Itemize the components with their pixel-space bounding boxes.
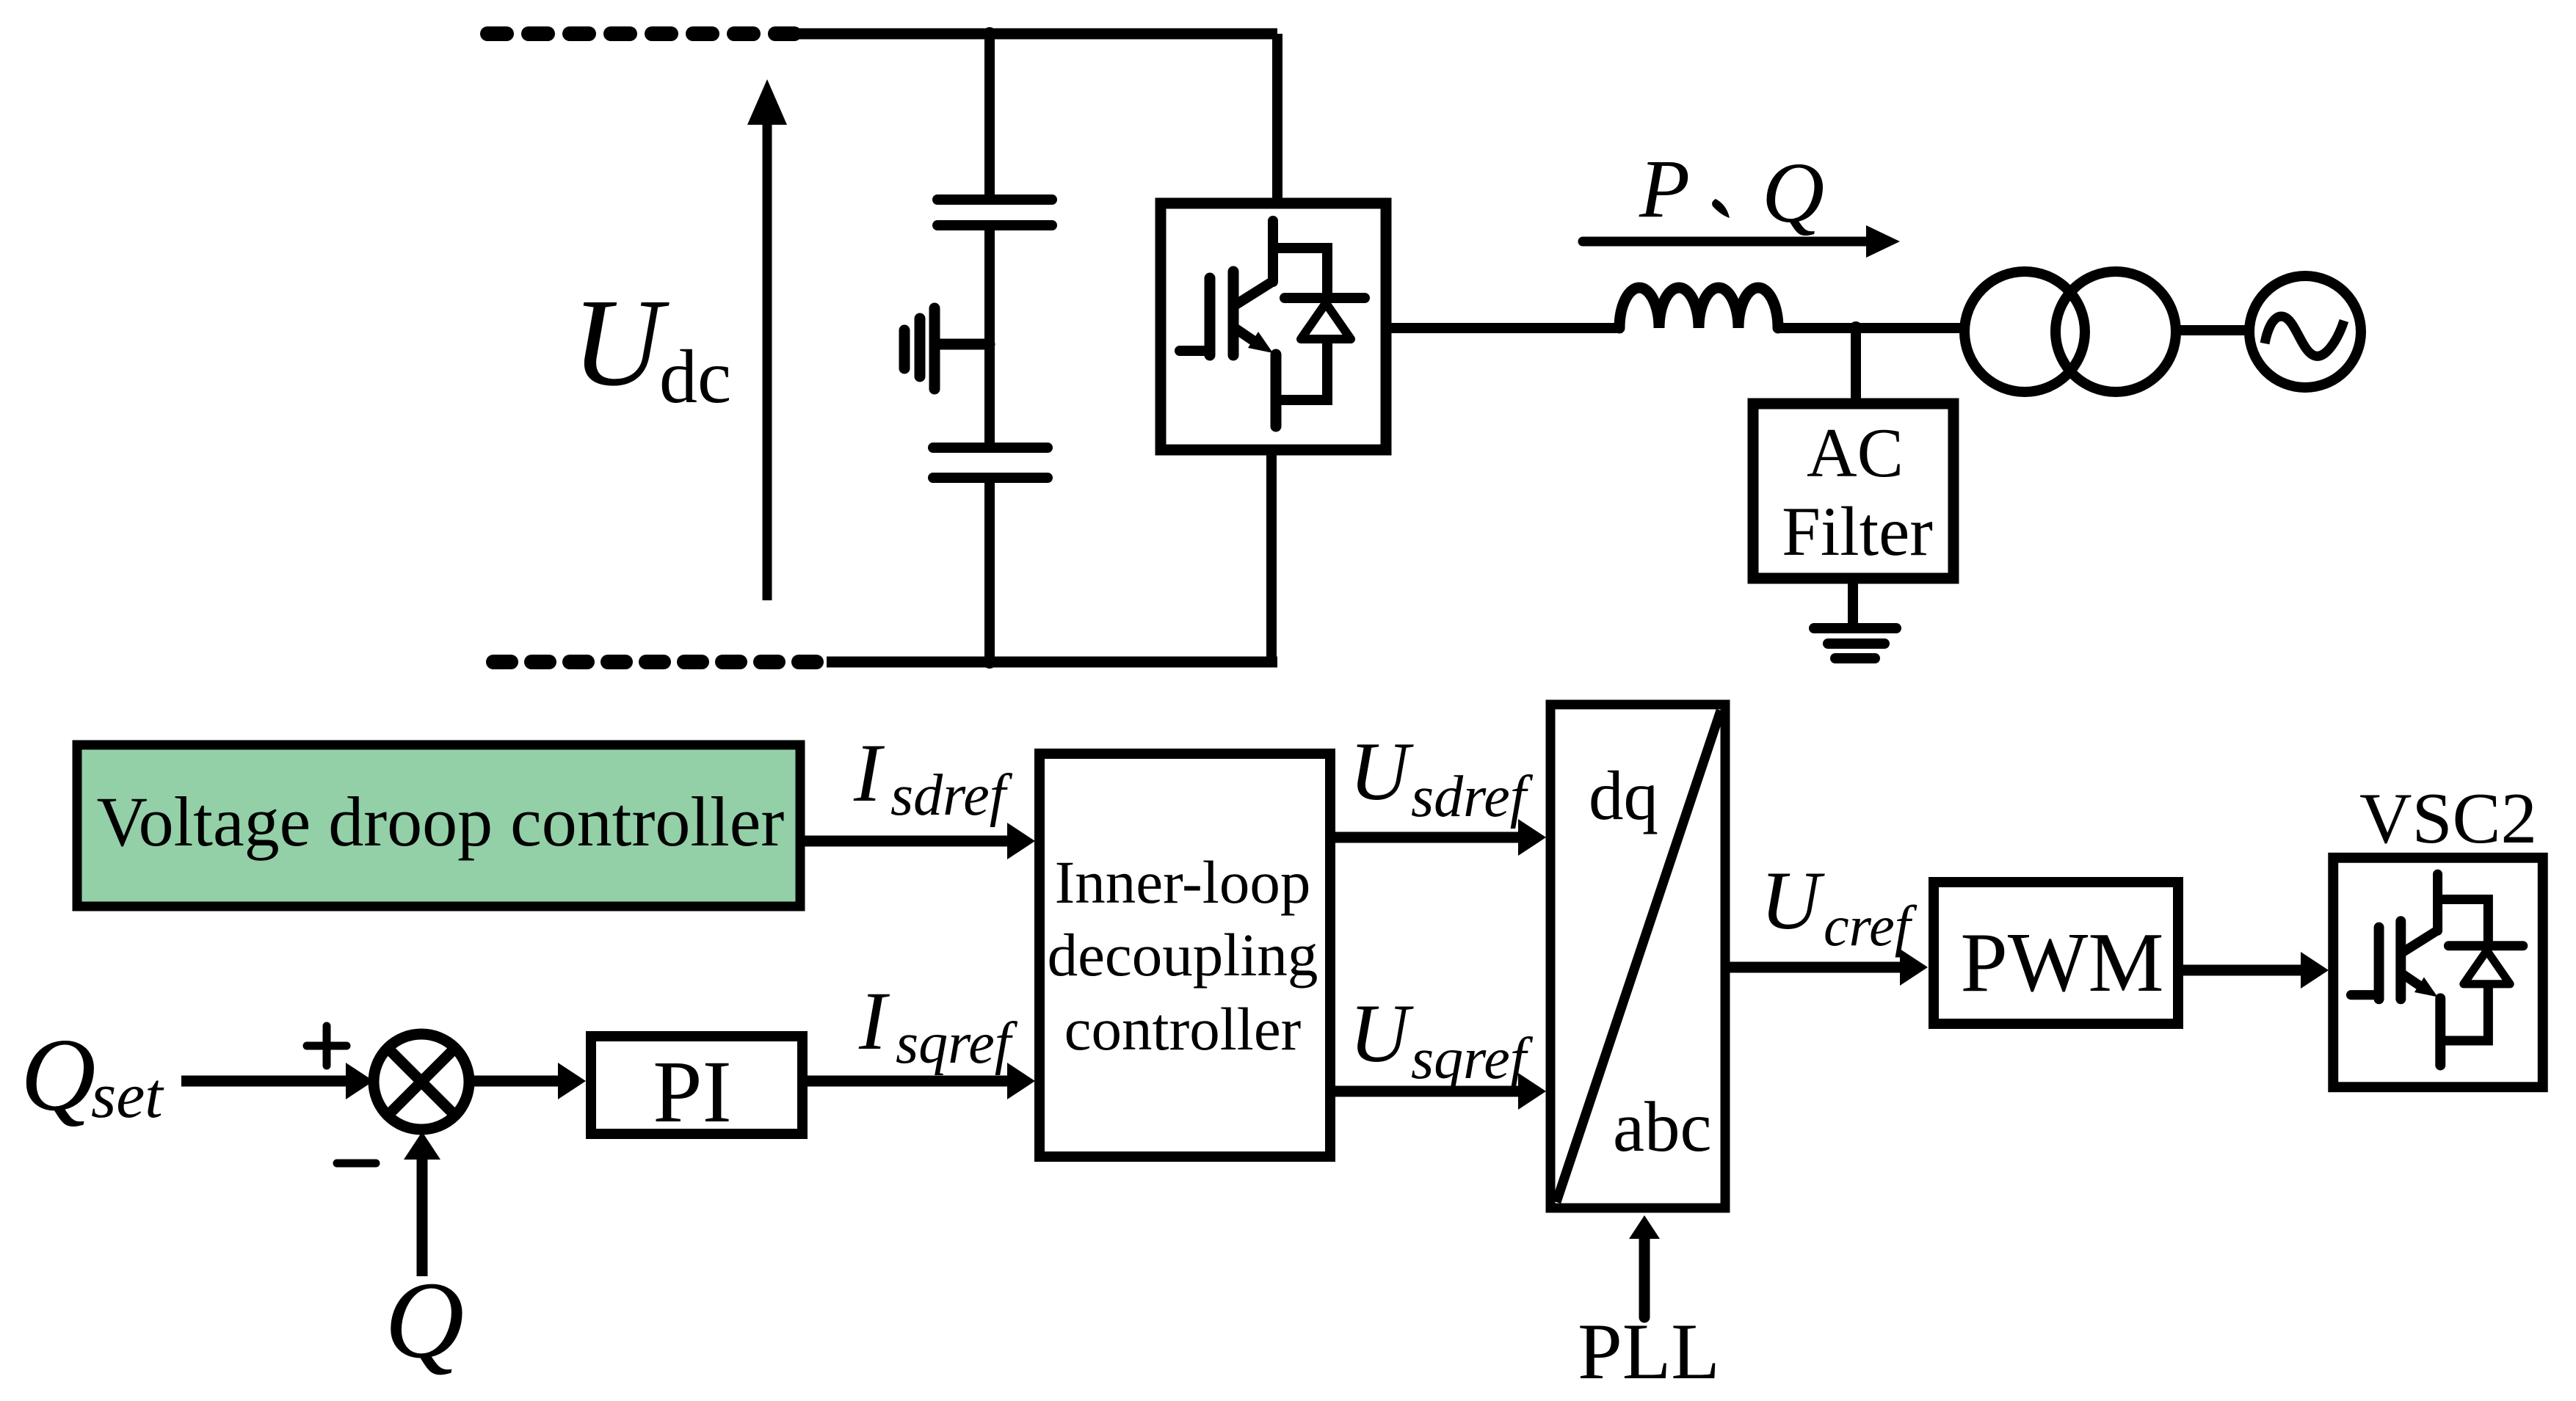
capacitor C1: [937, 200, 1052, 225]
arrow: PI to inner-loop: [802, 1063, 1035, 1099]
svg-text:U: U: [572, 273, 670, 412]
PI box: [591, 1036, 802, 1134]
transformer T1: [1964, 272, 2176, 392]
arrow: junction to PI: [469, 1063, 586, 1099]
PWM box: [1934, 882, 2178, 1024]
svg-text:abc: abc: [1613, 1088, 1712, 1166]
inductor L: [1619, 288, 1778, 328]
wire: inductor to PCC: [1778, 323, 1969, 333]
diode cathode bar: [1285, 293, 1365, 303]
arrow: inner-loop to dq lower: [1335, 1073, 1546, 1110]
ground (AC filter): [1814, 628, 1896, 658]
arrow: inner-loop to dq upper: [1335, 819, 1546, 856]
svg-text:sqref: sqref: [1411, 1027, 1534, 1091]
svg-text:PWM: PWM: [1960, 916, 2163, 1010]
svg-text:Q: Q: [1762, 145, 1824, 241]
wire: PCC to AC filter: [1851, 328, 1861, 407]
svg-text:set: set: [91, 1060, 164, 1132]
svg-text:decoupling: decoupling: [1048, 921, 1318, 989]
svg-text:AC: AC: [1807, 414, 1904, 492]
capacitor C2: [933, 448, 1048, 478]
svg-text:PI: PI: [653, 1043, 732, 1141]
svg-text:U: U: [1349, 988, 1414, 1080]
converter VSC1 (IGBT with diode): [1161, 203, 1386, 450]
svg-text:Q: Q: [385, 1259, 464, 1381]
svg-text:Voltage droop controller: Voltage droop controller: [97, 782, 785, 861]
converter VSC2: [2333, 858, 2543, 1087]
box: [1161, 203, 1386, 450]
main bar: [1228, 272, 1239, 355]
svg-text:Filter: Filter: [1782, 492, 1933, 570]
wire: capacitor branch lower: [984, 478, 995, 662]
Voltage droop controller box: [77, 745, 800, 906]
svg-text:sqref: sqref: [896, 1011, 1018, 1076]
Udc arrow: [747, 79, 787, 600]
svg-text:I: I: [853, 727, 885, 819]
collector vertical: [1268, 221, 1278, 282]
wire: DC bus bottom rail dashed: [493, 655, 828, 669]
svg-text:dc: dc: [659, 335, 731, 419]
arrow: PWM to VSC2: [2178, 952, 2329, 989]
dq/abc transform box: [1550, 705, 1725, 1208]
wire: DC bus bottom rail solid: [827, 657, 1277, 668]
AC grid source: [2249, 276, 2361, 387]
wire: converter AC output: [1386, 323, 1622, 333]
svg-text:Inner-loop: Inner-loop: [1055, 848, 1311, 916]
node: top rail / capacitor junction: [983, 27, 996, 40]
wire: converter to bottom rail: [1266, 450, 1277, 662]
svg-text:U: U: [1760, 855, 1825, 947]
arrow: droop to inner-loop: [800, 823, 1035, 859]
diode triangle: [1301, 303, 1351, 339]
svg-text:sdref: sdref: [1411, 765, 1534, 829]
wire: DC bus top rail solid: [793, 29, 1277, 40]
gate bar: [1205, 278, 1216, 355]
Inner-loop decoupling controller box: [1040, 754, 1330, 1157]
ideographic comma: [1712, 199, 1730, 218]
arrow: Qset to summing junction: [181, 1063, 374, 1099]
emitter diagonal with arrow: [1235, 328, 1253, 341]
arrow: dq to PWM: [1725, 949, 1928, 986]
svg-text:sdref: sdref: [890, 763, 1013, 828]
collector diagonal: [1235, 280, 1274, 305]
svg-text:controller: controller: [1064, 995, 1302, 1063]
wire: capacitor branch upper: [984, 29, 995, 194]
AC Filter box: [1753, 404, 1953, 578]
arrow P,Q: [1583, 225, 1900, 258]
gate lead: [1180, 346, 1210, 356]
node: bottom rail / capacitor junction: [983, 655, 996, 669]
arrow: PLL into abc: [1629, 1215, 1660, 1317]
svg-text:Q: Q: [21, 1016, 96, 1132]
svg-text:VSC2: VSC2: [2359, 779, 2537, 859]
wire: capacitor midpoint: [984, 225, 995, 448]
plus sign: [307, 1026, 347, 1066]
emitter vertical: [1271, 354, 1282, 426]
svg-text:cref: cref: [1824, 894, 1918, 958]
diode top connector: [1273, 248, 1327, 294]
summing junction: [374, 1034, 469, 1129]
arrow: Q feedback up into junction: [404, 1132, 440, 1276]
ground (DC midpoint, pointing left): [904, 308, 990, 389]
svg-text:I: I: [858, 975, 890, 1067]
minus sign: [337, 1160, 376, 1168]
node PCC junction dot: [1849, 321, 1862, 335]
wire: transformer to grid source: [2176, 325, 2251, 335]
svg-text:dq: dq: [1589, 757, 1658, 834]
wire: top rail to converter: [1272, 34, 1282, 203]
diode bottom connector: [1276, 339, 1327, 400]
wire: DC bus top rail dashed: [487, 26, 797, 41]
wire: AC filter to ground: [1848, 578, 1858, 625]
svg-text:U: U: [1349, 726, 1414, 818]
svg-text:P: P: [1639, 143, 1690, 235]
svg-text:PLL: PLL: [1578, 1307, 1720, 1396]
